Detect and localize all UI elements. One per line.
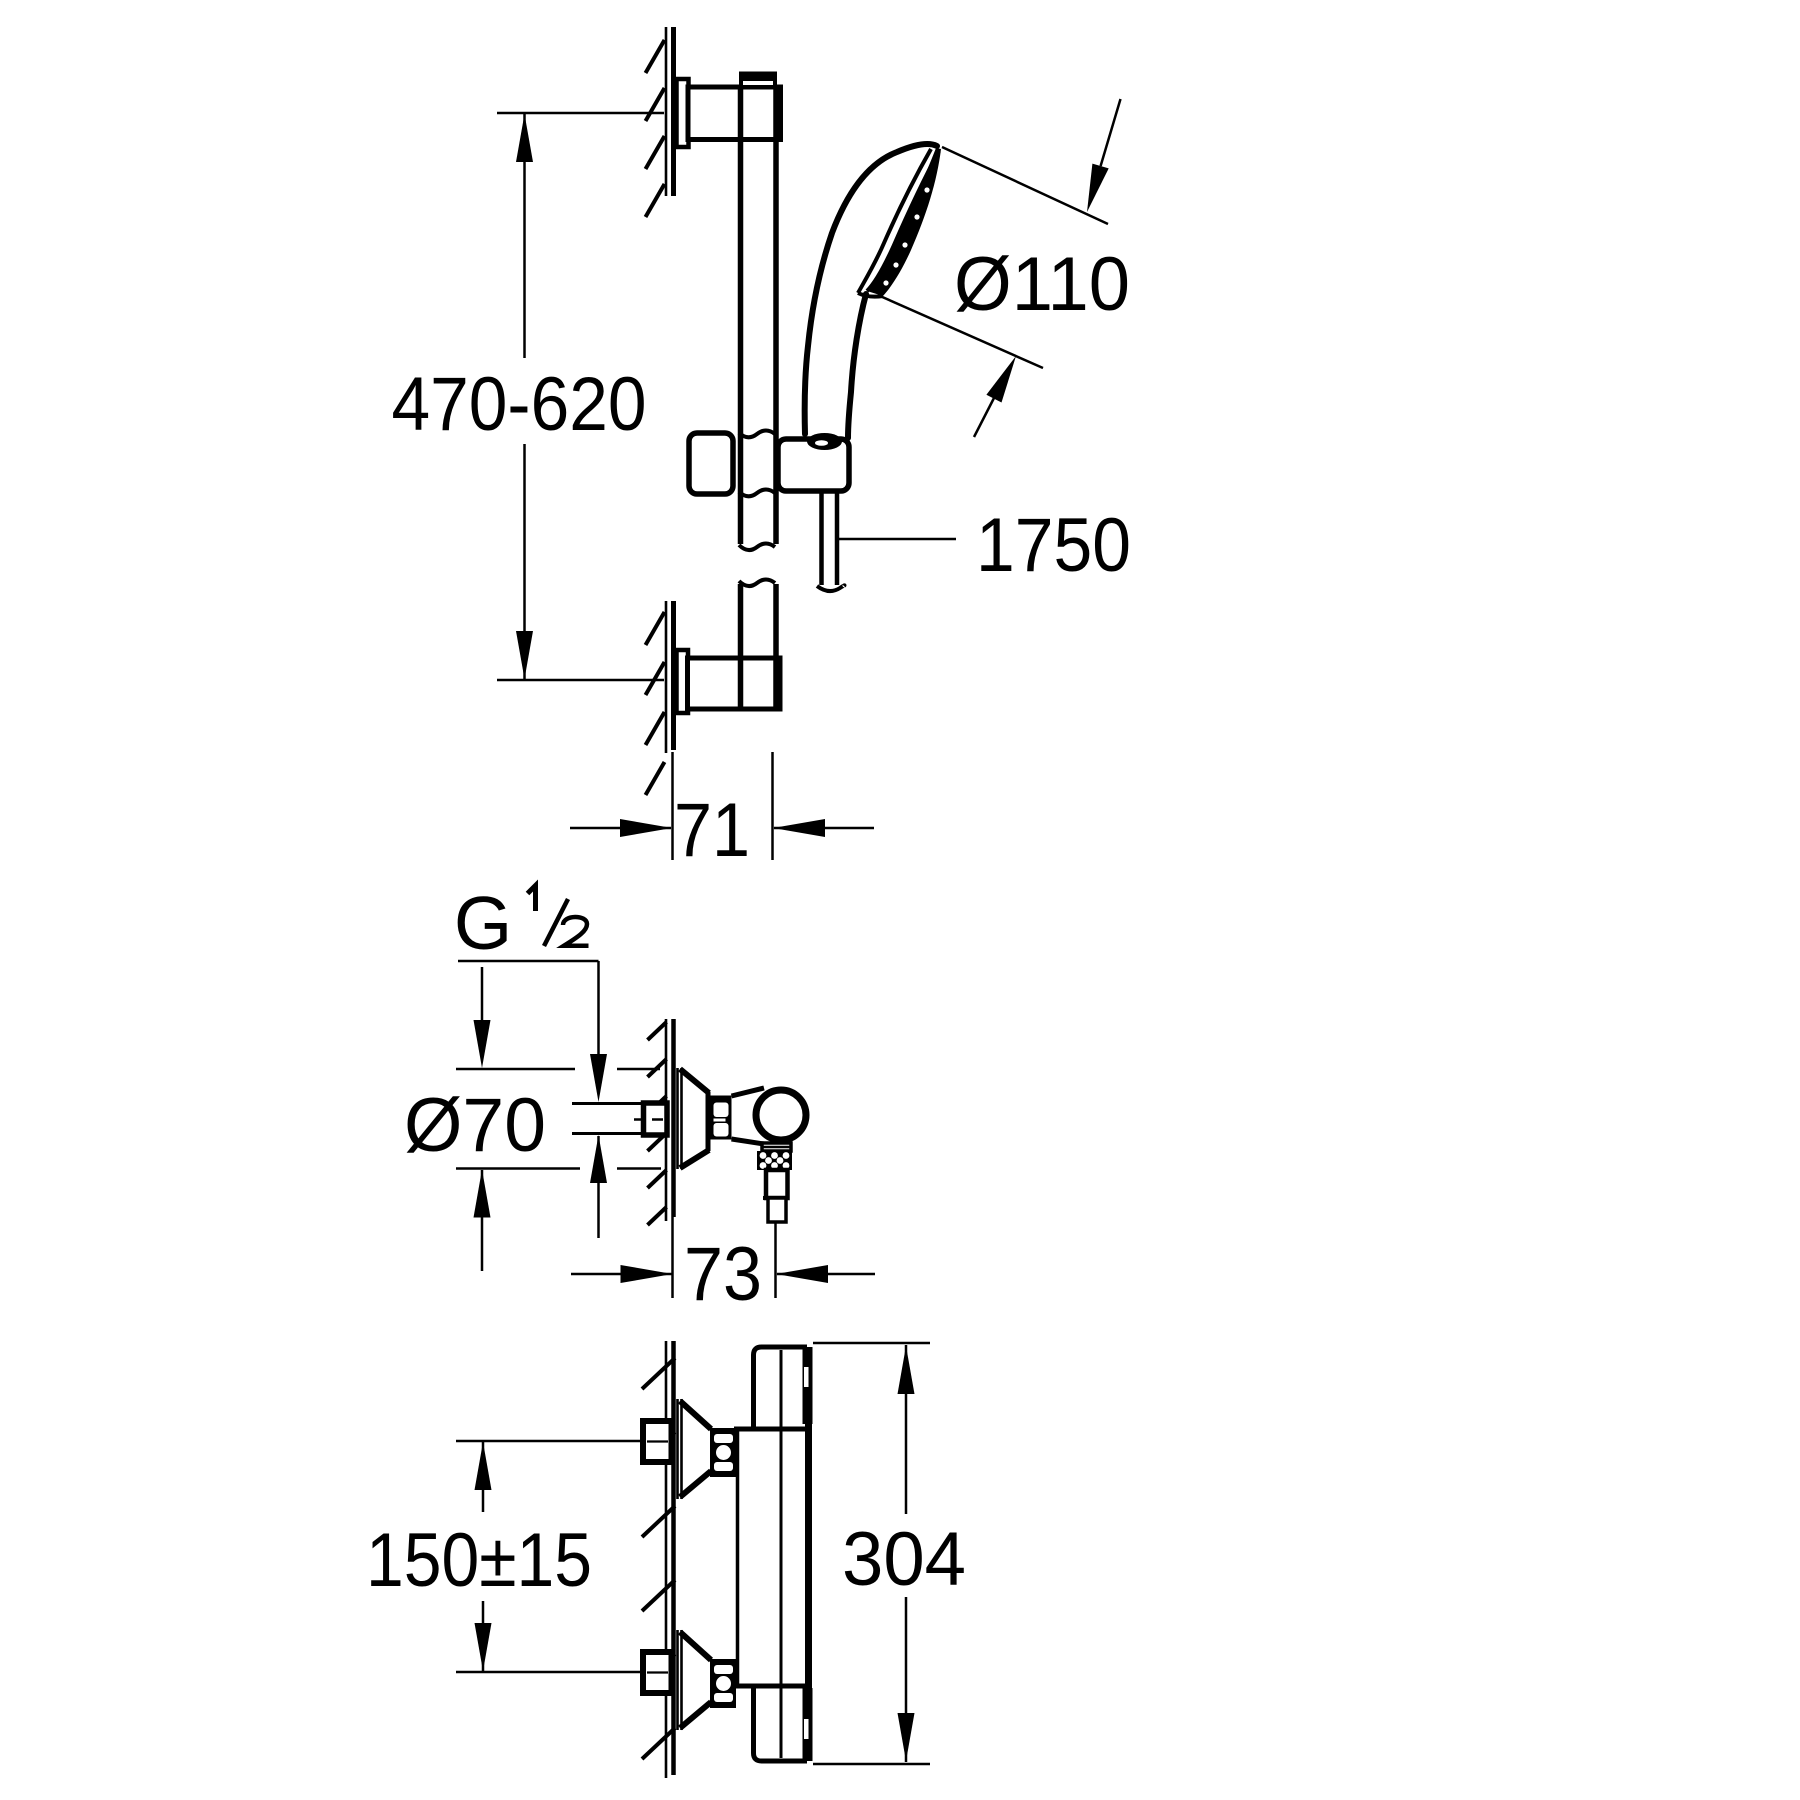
dimension G 1/2 - upper arrow (to pipe top) (590, 1054, 607, 1102)
handshower - spray face front edge line (858, 149, 931, 293)
dimension 71 - left dimension line (570, 827, 671, 830)
shower rail - right edge (upper part) (773, 87, 779, 544)
rail break wave at slider top (739, 431, 775, 438)
svg-text:304: 304 (842, 1517, 966, 1602)
shower rail - left edge (lower part) (738, 584, 744, 708)
handshower - spray face second edge line (867, 151, 939, 291)
escutcheon cone (middle view) - right edge (706, 1092, 711, 1151)
mixer temperature stem - neck (762, 1143, 791, 1151)
mixer temperature stem - shoulder line (763, 1196, 790, 1200)
wall (middle view) - thick line (671, 1019, 676, 1217)
dimension 73 - left dimension line (571, 1273, 672, 1276)
handshower handle cone in holder (dark crescent) (807, 433, 842, 450)
top rail bracket - body (688, 87, 781, 140)
handshower - handle/head outer contour (805, 144, 937, 434)
dimension 150±15 - dim line upper segment (482, 1442, 485, 1512)
thermostat body - front silhouette line (780, 1350, 783, 1758)
rail break wave at slider bottom (739, 490, 775, 497)
lower escutcheon - plate front line (676, 1630, 679, 1730)
thermostat body - bottom cap (754, 1686, 808, 1761)
lower supply pipe line (150 dim lower extension) (456, 1671, 643, 1674)
dimension 73 - left arrow (621, 1265, 673, 1283)
dimension 150±15 - dim line lower segment (482, 1601, 485, 1671)
lower rail bracket - body (688, 658, 781, 709)
dimension O110 - upper arrow tail (1101, 99, 1121, 166)
lower escutcheon cone - lower edge (680, 1702, 711, 1728)
thermostat body - lower shoulder line (734, 1684, 807, 1689)
thermostat body - right edge notch (bottom) (804, 1719, 809, 1739)
escutcheon cone (middle view) - white fill (681, 1069, 709, 1168)
shower rail - left edge (upper part) (738, 87, 744, 544)
dimension 73 - right extension line (from stem) (774, 1222, 777, 1298)
shower hose - right edge (835, 491, 840, 585)
dimension 304 - dim line lower segment (905, 1597, 908, 1762)
wall hatching (middle view) (648, 1022, 667, 1040)
svg-text:G: G (454, 881, 512, 965)
upper union knurled ring (bottom view) (710, 1428, 736, 1477)
dimension 304 - lower arrow (898, 1713, 915, 1761)
escutcheon (middle view) - wall plate (676, 1068, 683, 1169)
dimension 71 - right arrow (773, 819, 825, 837)
dimension G 1/2 - fraction slash (drawn) (544, 899, 568, 946)
dimension 304 - upper arrow (898, 1346, 915, 1394)
dimension G 1/2 - lower arrow tail (597, 1136, 600, 1238)
thermostat body - right edge notch (top) (804, 1367, 809, 1387)
svg-text:73: 73 (684, 1232, 762, 1317)
escutcheon cone (middle view) - lower edge (680, 1150, 709, 1168)
thermostat body - right edge (805, 1347, 812, 1761)
upper escutcheon cone - lower edge (680, 1471, 711, 1497)
supply pipe hex nut (middle view) (644, 1103, 668, 1135)
rail top end cap - dark top band (739, 72, 777, 82)
supply pipe G1/2 - top line (572, 1102, 644, 1105)
dimension 304 - dim line upper segment (905, 1345, 908, 1514)
dimension 73 - right dimension line (777, 1273, 875, 1276)
upper escutcheon cone - white fill (681, 1401, 711, 1497)
lower escutcheon (bottom view) - wall plate (676, 1630, 683, 1730)
dimension 470-620 - lower arrow (516, 631, 533, 679)
rail interruption wave (upper segment bottom end) (738, 547, 778, 587)
svg-text:Ø110: Ø110 (954, 242, 1130, 327)
wall hatching (bottom view) (642, 1358, 675, 1389)
dimension O70 - lower extension line (456, 1167, 580, 1170)
union ring (middle view) - knurled nut (710, 1096, 732, 1140)
rail top end cap (741, 74, 775, 87)
dimension G 1/2 - lower arrow (to pipe bottom) (590, 1135, 607, 1183)
lower escutcheon cone - upper edge (680, 1632, 711, 1660)
dimension O70 - lower arrow (474, 1170, 491, 1218)
lower escutcheon cone - white fill (681, 1632, 711, 1728)
mixer valve body (middle view) - bottom edge (732, 1139, 765, 1144)
mixer temperature stem - neck mid line (762, 1146, 791, 1149)
dimension 71 - left extension line (671, 752, 674, 860)
escutcheon cone (middle view) - upper edge (680, 1069, 709, 1093)
top rail bracket - wall flange (677, 79, 689, 147)
dimension 71 - right extension line (771, 752, 774, 860)
thermostat body - white fill (736, 1345, 809, 1763)
dimension 150±15 - upper arrow (475, 1442, 492, 1490)
thermostat body - top cap (754, 1347, 808, 1429)
handshower - spray face dark rim band (867, 148, 941, 296)
supply pipe G1/2 - white interior (574, 1105, 644, 1132)
dimension 304 - lower extension line (813, 1763, 930, 1766)
supply pipe G1/2 - bottom line (572, 1132, 644, 1135)
wall (bottom view) - thick line (671, 1341, 676, 1775)
upper hex nut mid line (647, 1440, 668, 1442)
dimension O110 - upper extension line (942, 147, 1108, 224)
dimension G 1/2 - leader vertical line (597, 961, 600, 1062)
lower escutcheon - plate back line (680, 1630, 683, 1730)
dimension G 1/2 - superscript 1 (drawn) (528, 886, 536, 912)
dimension 470-620 - top extension line (497, 112, 664, 115)
mixer valve body (middle view) - white fill (732, 1087, 766, 1145)
dimension G 1/2 - underline (458, 960, 599, 963)
dimension O70 - upper extension line (456, 1068, 575, 1071)
lower union knurled ring (bottom view) (710, 1659, 736, 1708)
escutcheon (middle view) - plate front line (676, 1068, 679, 1169)
svg-text:150±15: 150±15 (366, 1518, 592, 1603)
svg-text:71: 71 (674, 788, 750, 873)
lower hex nut mid line (647, 1671, 668, 1673)
dimension O110 - lower arrow (986, 356, 1016, 403)
dimension 150±15 - lower arrow (475, 1623, 492, 1671)
mixer lever cap (middle view) - circle (756, 1090, 806, 1140)
wall hatching (top view, upper segment) (646, 40, 665, 73)
mixer valve body (middle view) - top edge (732, 1088, 765, 1096)
thermostat body - upper shoulder line (734, 1427, 807, 1432)
svg-text:1750: 1750 (976, 503, 1131, 588)
upper supply hex nut (bottom view) (643, 1421, 672, 1462)
wall (middle view) - thin face line (665, 1019, 668, 1221)
wall (bottom view) - thin face line (665, 1341, 668, 1778)
dimension O110 - lower extension line (880, 296, 1043, 368)
rail interruption wave (lower segment top end) (738, 560, 778, 581)
thermostat body - back plate edge (736, 1429, 740, 1686)
lower supply hex nut (bottom view) (643, 1652, 672, 1693)
mixer temperature stem - knurled block (757, 1151, 792, 1170)
shower hose - left edge (819, 491, 824, 585)
upper supply pipe line (150 dim upper extension) (456, 1440, 643, 1443)
handshower holder (right of rail) (778, 439, 849, 491)
dimension O70 - upper arrow (474, 1020, 491, 1068)
svg-text:470-620: 470-620 (392, 362, 647, 447)
wall (top view, upper segment) - thin face line (665, 27, 668, 196)
dimension 71 - right dimension line (774, 827, 874, 830)
shower hose - wavy break end (817, 585, 845, 591)
wall (top view, lower segment) - thick line (671, 601, 676, 750)
dimension 71 - left arrow (620, 819, 672, 837)
leader line for 1750 (hose length) (839, 538, 956, 541)
upper escutcheon - plate front line (676, 1399, 679, 1499)
dimension 470-620 - bottom extension line (497, 679, 664, 682)
dimension O70 - lower arrow tail (481, 1170, 484, 1271)
svg-text:Ø70: Ø70 (404, 1083, 546, 1168)
upper escutcheon (bottom view) - wall plate (676, 1399, 683, 1499)
wall (top view, lower segment) - thin face line (665, 601, 668, 753)
supply pipe dashed center line (634, 1118, 670, 1121)
dimension 470-620 - dimension line lower segment (523, 444, 526, 679)
dimension 73 - left extension line (671, 1217, 674, 1298)
lower rail bracket - wall flange (677, 650, 689, 713)
dimension O70 - upper arrow tail (481, 967, 484, 1022)
upper escutcheon cone - upper edge (680, 1401, 711, 1429)
handshower - handle right edge (848, 294, 866, 438)
wall hatching (top view, lower segment) (646, 612, 665, 645)
escutcheon (middle view) - plate back line (680, 1068, 683, 1169)
thermostat body - right edge thick bottom segment (803, 1688, 813, 1761)
upper escutcheon - plate back line (680, 1399, 683, 1499)
handshower - face bottom corner line (858, 293, 883, 297)
dimension O110 - upper arrow (1087, 164, 1109, 212)
mixer temperature stem - upper section (766, 1170, 788, 1198)
lower rail bracket - rail line through body (738, 658, 744, 709)
dimension 304 - upper extension line (813, 1342, 930, 1345)
shower rail - right edge (lower part) (773, 584, 779, 658)
mixer temperature stem - lower section (768, 1198, 786, 1222)
dimension G 1/2 - subscript 2 (drawn) (563, 917, 589, 946)
glide slider knob (left of rail) (689, 433, 733, 494)
thermostat body - right edge thick top segment (803, 1347, 813, 1424)
dimension 470-620 - upper arrow (516, 114, 533, 162)
dimension 73 - right arrow (776, 1265, 828, 1283)
wall (top view, upper segment) - thick line (671, 27, 676, 196)
dimension 470-620 - dimension line upper segment (523, 114, 526, 358)
dimension O110 - lower arrow tail (974, 398, 994, 437)
